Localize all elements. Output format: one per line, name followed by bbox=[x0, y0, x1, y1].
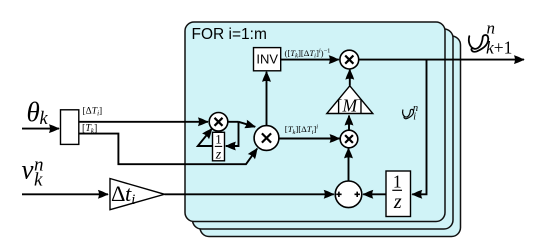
wire M2 up to INV bbox=[266, 72, 268, 125]
multiplier M1 cross bbox=[215, 118, 223, 126]
multiplier M4 circled-times bbox=[340, 50, 359, 69]
svg-text:θ: θ bbox=[27, 97, 40, 127]
delay block Z2 bbox=[386, 171, 411, 217]
multiplier M1 circle bbox=[209, 113, 228, 132]
wire M1 output branch to delay Z1 bbox=[226, 122, 239, 146]
wire T_k from demux to big multiplier bbox=[79, 134, 257, 165]
wire gain to adder bbox=[165, 193, 334, 195]
wire v input arrow bbox=[22, 193, 108, 195]
for-loop frame back layer 3 bbox=[200, 36, 461, 237]
multiplier M2 big circle bbox=[254, 126, 279, 151]
wire delay Z1 feedback to M1 bbox=[198, 129, 213, 146]
demux block bbox=[61, 110, 79, 145]
adder plus right bbox=[355, 192, 360, 197]
label phi_k+1^n output bbox=[469, 19, 513, 58]
wire adder up to M3 bbox=[348, 148, 350, 181]
svg-text:[ΔTi]: [ΔTi] bbox=[83, 107, 103, 118]
svg-text:[Tk][ΔTi]i: [Tk][ΔTi]i bbox=[285, 124, 318, 136]
wire gain M to circled-times bbox=[349, 70, 351, 86]
svg-text:k: k bbox=[34, 170, 43, 191]
svg-text:1: 1 bbox=[393, 171, 402, 191]
svg-text:k+1: k+1 bbox=[486, 38, 512, 58]
multiplier M3 cross bbox=[345, 135, 353, 143]
multiplier M4 cross bbox=[345, 56, 353, 64]
svg-text:INV: INV bbox=[256, 52, 278, 67]
block INV bbox=[254, 48, 281, 71]
wire INV to circled-times bbox=[281, 59, 339, 61]
wire M1 output to big multiplier bbox=[227, 122, 255, 127]
svg-text:n: n bbox=[487, 19, 496, 38]
wire DeltaT_i from demux to multiplier bbox=[79, 121, 208, 123]
multiplier M2 cross bbox=[262, 133, 271, 142]
delay Z2 fraction 1/z bbox=[392, 171, 402, 213]
svg-text:FOR i=1:m: FOR i=1:m bbox=[192, 26, 267, 43]
svg-text:k: k bbox=[40, 109, 49, 129]
wire M3 up into gain M bbox=[348, 116, 350, 131]
for-loop frame front layer 1 bbox=[185, 22, 445, 222]
wire M2 output to multiplier M3 bbox=[279, 138, 340, 140]
wire delay Z2 to adder bbox=[363, 193, 386, 195]
svg-text:[M]: [M] bbox=[337, 95, 363, 115]
svg-text:z: z bbox=[393, 191, 402, 213]
label phi_i^n bbox=[403, 103, 419, 123]
gain triangle Delta t_i bbox=[110, 179, 165, 210]
delay block Z1 bbox=[213, 132, 225, 161]
svg-text:z: z bbox=[215, 147, 222, 162]
delay Z1 fraction 1/z bbox=[215, 132, 222, 163]
svg-text:1: 1 bbox=[215, 132, 222, 147]
for-loop frame back layer 2 bbox=[193, 29, 454, 229]
adder plus left bbox=[336, 192, 341, 197]
wire feedback from output to delay Z2 bbox=[412, 60, 426, 195]
svg-text:([Tk][ΔTi]i)−1: ([Tk][ΔTi]i)−1 bbox=[285, 47, 331, 59]
svg-text:i: i bbox=[413, 112, 416, 123]
svg-text:v: v bbox=[22, 155, 34, 185]
gain triangle M bbox=[327, 86, 373, 114]
multiplier M3 circle bbox=[340, 130, 358, 148]
wire theta_k input arrow bbox=[22, 128, 59, 130]
adder circle bbox=[335, 181, 362, 208]
wire output phi k+1 bbox=[359, 59, 524, 61]
